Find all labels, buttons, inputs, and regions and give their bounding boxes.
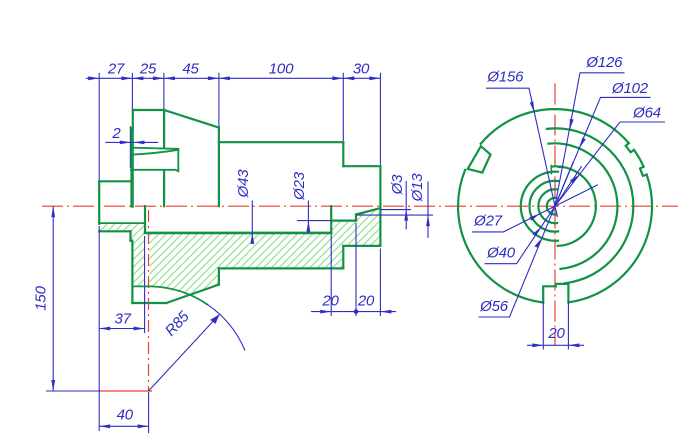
- svg-text:20: 20: [321, 293, 339, 310]
- dim 40 line: [99, 425, 148, 427]
- dot 20 chain middle: [354, 309, 359, 314]
- arrow leader d56: [534, 238, 542, 248]
- svg-text:Ø40: Ø40: [486, 244, 516, 261]
- svg-text:Ø43: Ø43: [235, 169, 252, 199]
- ext x=343: [342, 73, 344, 141]
- arrow R85: [210, 314, 220, 324]
- arrow 20r right outside: [568, 343, 579, 347]
- svg-text:37: 37: [114, 311, 131, 328]
- bore end face x=331: [330, 206, 332, 233]
- rim d156 segment 2: [481, 109, 629, 144]
- ext x=99: [98, 73, 100, 180]
- leader d156: [486, 88, 557, 217]
- centerline bottom horizontal red: [99, 390, 152, 392]
- jog step: [131, 240, 133, 242]
- dim d23 line: [307, 201, 309, 235]
- ext d23: [297, 220, 331, 222]
- svg-text:Ø64: Ø64: [632, 104, 661, 121]
- arrow 45 left: [164, 76, 175, 80]
- slot stub a: [550, 166, 552, 174]
- leader d126: [555, 73, 625, 206]
- svg-text:45: 45: [182, 61, 199, 78]
- circle d40 arc: [530, 181, 559, 232]
- arrow 100 right: [332, 76, 343, 80]
- svg-text:30: 30: [353, 61, 370, 78]
- arrow 27 left outside: [88, 76, 99, 80]
- svg-text:20: 20: [547, 325, 565, 342]
- dim d13 line: [427, 182, 429, 239]
- hub d40 bottom edge: [99, 230, 130, 232]
- rim d156 segment 1: [634, 150, 644, 167]
- leader d27: [472, 185, 598, 232]
- keyway slot top-left: [468, 146, 491, 172]
- svg-text:Ø13: Ø13: [409, 173, 426, 203]
- svg-text:40: 40: [117, 407, 134, 424]
- arrow leader d102: [579, 138, 586, 148]
- ext x=144.6: [144, 236, 146, 333]
- flange left face upper: [132, 110, 134, 129]
- svg-text:Ø27: Ø27: [473, 212, 503, 229]
- hub left face: [98, 181, 100, 224]
- leader d40: [485, 166, 582, 264]
- arrow d3: [404, 210, 408, 221]
- leader d64: [555, 122, 665, 206]
- dim 20 20 line: [311, 311, 396, 313]
- arrow 40 left: [99, 424, 110, 428]
- arrow d23: [307, 221, 311, 232]
- arrow d13: [426, 215, 430, 226]
- flange d156 bottom edge: [132, 302, 166, 304]
- R85 green arc: [153, 287, 207, 305]
- arrow 30 left: [343, 76, 354, 80]
- svg-text:150: 150: [33, 285, 50, 310]
- centerline R85 vertical: [148, 210, 150, 391]
- step d13 face: [355, 215, 357, 221]
- rim d156 segment 4: [569, 175, 653, 303]
- svg-text:20: 20: [357, 293, 375, 310]
- circle d56 arc: [521, 172, 558, 241]
- ext x=164: [163, 73, 165, 109]
- flange right face lower: [163, 172, 165, 207]
- circle d13 arc: [547, 198, 557, 215]
- svg-text:Ø56: Ø56: [479, 298, 509, 315]
- bore d27 edge: [99, 222, 145, 224]
- ext x=356 low: [355, 223, 357, 316]
- cone to d3: [356, 208, 380, 214]
- arrow 2 right: [134, 141, 145, 145]
- arrow leader d126: [570, 119, 574, 130]
- arrow 150 bottom: [51, 380, 55, 391]
- lower shoulder face: [218, 268, 220, 284]
- flange right face upper: [163, 110, 165, 148]
- dimension graphics: [46, 73, 665, 433]
- dim 20 right line: [527, 344, 584, 346]
- step face x=343: [342, 142, 344, 166]
- arrow 20r left outside: [532, 343, 543, 347]
- circle d126 arc: [547, 128, 633, 283]
- arrow 25 right: [153, 76, 164, 80]
- circle d27 arc: [538, 189, 557, 223]
- arrow 20b outside right: [380, 310, 391, 314]
- arrow 100 left: [219, 76, 230, 80]
- arrow 2 left: [120, 141, 131, 145]
- leader d56: [479, 162, 574, 317]
- spout right edge: [177, 149, 179, 171]
- arrows: [51, 76, 586, 428]
- arrow 150 top: [51, 206, 55, 217]
- arrow leader d64: [570, 175, 579, 184]
- flange top edge: [133, 109, 164, 111]
- ext 2mm groove: [129, 126, 131, 168]
- spout top edge: [131, 148, 178, 149]
- arrow 30 right: [369, 76, 380, 80]
- ext d3: [380, 209, 411, 211]
- ext x=99 long: [98, 226, 100, 431]
- R85 shelf line: [133, 285, 153, 287]
- dim d3 line: [405, 181, 407, 230]
- dim 150 line: [52, 206, 54, 391]
- nick notch upper-right: [626, 143, 634, 152]
- ext d13: [357, 214, 433, 216]
- arrow 27 right: [121, 76, 132, 80]
- nick notch lower-right: [640, 167, 647, 176]
- ext x=331 low: [330, 234, 332, 316]
- dim 20 right ext b: [567, 302, 569, 350]
- arrow 20a outside left: [320, 310, 331, 314]
- hub step face: [129, 231, 131, 240]
- circle d102 arc: [548, 143, 617, 269]
- R85 blue arc: [207, 304, 245, 350]
- ext x=380: [379, 73, 381, 165]
- arrow d43: [250, 233, 254, 244]
- right view: [458, 109, 652, 302]
- ext x=219: [218, 73, 220, 127]
- bore d23 edge: [331, 220, 356, 222]
- slot stub b: [558, 166, 562, 168]
- centerline right view vertical: [554, 84, 556, 346]
- top chain dim line: [86, 77, 380, 79]
- d64 bottom edge: [343, 245, 380, 247]
- groove wall 2mm thick: [130, 129, 133, 206]
- cylinder top edge y=142: [219, 141, 343, 143]
- R85 leader: [149, 314, 220, 391]
- right end face: [379, 166, 381, 246]
- cone slant edge: [164, 110, 219, 128]
- dim 2 line: [106, 141, 159, 143]
- profile slant lower: [166, 285, 219, 303]
- bottom slot: [543, 284, 568, 303]
- svg-text:Ø3: Ø3: [389, 174, 406, 195]
- lower step face x=343: [342, 246, 344, 269]
- svg-text:Ø102: Ø102: [611, 80, 649, 97]
- cylinder bottom edge: [219, 267, 343, 269]
- ext 150 bottom: [46, 390, 99, 392]
- unhatched relief strip left of R85 centerline: [145, 234, 150, 286]
- arrow leader d156: [530, 101, 534, 112]
- arrow 37 left: [99, 327, 110, 331]
- svg-text:Ø23: Ø23: [291, 171, 308, 201]
- arrow leader d40: [532, 227, 541, 236]
- arrow 37 right: [134, 327, 145, 331]
- circle d64 arc: [552, 166, 596, 246]
- ext x=132: [131, 73, 133, 109]
- centerline main axis: [42, 205, 678, 207]
- spout bottom edge: [131, 170, 178, 171]
- bore d43 edge: [145, 232, 331, 235]
- dim 37 line: [99, 328, 144, 330]
- svg-text:25: 25: [139, 61, 157, 78]
- dim 20 right ext a: [542, 302, 544, 350]
- arrow 25 left: [132, 76, 143, 80]
- bore bottom face x=145: [144, 206, 146, 233]
- shoulder face x=219: [218, 128, 220, 207]
- ext x=148.6: [148, 392, 150, 433]
- arrow leader d27: [530, 214, 540, 221]
- spout curve: [132, 150, 179, 155]
- svg-text:Ø156: Ø156: [486, 69, 524, 86]
- arrow 40 right: [138, 424, 149, 428]
- dim d43 line: [251, 201, 253, 242]
- flange left face lower: [131, 241, 133, 303]
- hatch section fill: [99, 208, 380, 295]
- svg-text:100: 100: [269, 61, 294, 78]
- svg-text:2: 2: [111, 125, 121, 142]
- leader d102: [555, 97, 651, 206]
- svg-text:Ø126: Ø126: [585, 54, 623, 71]
- right cylinder top edge: [343, 165, 380, 167]
- arrow 45 right: [208, 76, 219, 80]
- svg-text:27: 27: [107, 61, 125, 78]
- hub top edge: [99, 180, 131, 182]
- rim d156 segment 3: [458, 170, 543, 303]
- ext x=380 low: [379, 249, 381, 317]
